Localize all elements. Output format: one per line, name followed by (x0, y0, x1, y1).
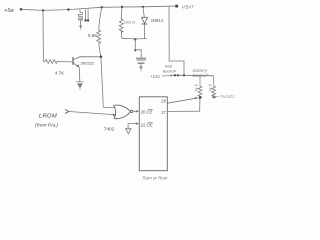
resistor 5.6K vertical (97, 7, 102, 43)
svg-text:+12v: +12v (150, 74, 161, 79)
transistor Q1 2N2222 (73, 57, 101, 68)
svg-text:( from PAL): ( from PAL) (35, 122, 59, 128)
junction collector node (100, 56, 103, 59)
label +12V with arrow (150, 74, 174, 79)
svg-text:V BAT: V BAT (182, 4, 195, 9)
label 4.7K (base resistor) (55, 71, 64, 76)
pin label 20 CE (141, 110, 153, 115)
pin label 27 (161, 110, 166, 115)
svg-text:4.7K: 4.7K (208, 84, 212, 92)
node +5V label (4, 8, 14, 14)
junction on rail at x68 (67, 8, 69, 10)
ground triangle at OE (126, 129, 131, 134)
junction dot battery rail x178 (177, 74, 179, 76)
ground arrow below capacitor (139, 66, 143, 72)
resistor 4.7K pullup right (212, 76, 216, 98)
label PU/SEL with arrow (212, 94, 235, 99)
svg-text:4.7K: 4.7K (194, 84, 198, 92)
svg-text:LROM: LROM (39, 114, 57, 120)
wire bottom of R10/diode (122, 37, 147, 40)
label 7402 (104, 127, 115, 133)
svg-text:1N914: 1N914 (151, 18, 164, 23)
label (from PAL) (35, 122, 59, 128)
capacitor plates pair (two stubs with dots, x85.6/x88.1) (84, 9, 89, 21)
node +5V terminal dot (20, 8, 23, 11)
wire jog down to capacitor C1 (134, 39, 141, 57)
junction at cap drop (134, 38, 136, 40)
ground arrow below emitter (76, 82, 84, 91)
wire pin28 to left pullup (167, 97, 198, 103)
svg-text:BackuP: BackuP (163, 68, 177, 73)
connector chevron LROM (65, 110, 69, 114)
junction dot right pullup bottom (212, 96, 215, 99)
diode 1N914 (142, 7, 148, 39)
resistor 10 ohm vertical (119, 7, 123, 38)
resistor small vertical at top (x80) (79, 10, 83, 26)
pin label 28 (161, 99, 166, 104)
svg-text:20 CE: 20 CE (141, 110, 153, 115)
svg-text:27: 27 (161, 110, 166, 115)
svg-text:22 OE: 22 OE (141, 123, 153, 128)
label Ram or Rom (143, 175, 168, 180)
wire OE pin from ground (128, 122, 139, 128)
svg-text:Pu/SEL: Pu/SEL (220, 94, 235, 99)
wire emitter down (78, 67, 81, 81)
resistor 4.7K pullup left (198, 76, 202, 98)
svg-text:5.6K: 5.6K (88, 33, 98, 38)
junction dot battery rail x184 (183, 74, 185, 76)
wire LROM to gate input (69, 112, 116, 117)
label 5.6K (88, 33, 98, 38)
svg-text:7402: 7402 (104, 127, 115, 133)
resistor 4.7K base (43, 60, 73, 64)
node VBAT label (182, 4, 195, 9)
svg-text:4.7K: 4.7K (55, 71, 64, 76)
wire from rail down to battery backup rail (169, 6, 184, 75)
svg-text:10Ω-Ω: 10Ω-Ω (124, 19, 136, 24)
label 10 ohm (124, 19, 136, 24)
wire gate output to CE pin (133, 110, 139, 113)
node VBAT terminal square (175, 5, 178, 8)
label 2N2222 (81, 60, 95, 65)
junction on rail at x122 (121, 6, 123, 8)
pin label 22 OE (141, 123, 153, 128)
svg-text:2N2222: 2N2222 (81, 60, 95, 65)
svg-text:Ram or Rom: Ram or Rom (143, 175, 168, 180)
label LROM (39, 114, 57, 120)
label 4.7K rotated (right pullup) (208, 84, 212, 92)
label Batt Backup (163, 64, 177, 74)
wire from rail down to base resistor (42, 10, 44, 61)
wire top +5V rail (21, 6, 176, 10)
wire pin27 jog up to pullup node (167, 98, 200, 111)
label 4.7K rotated (left pullup) (194, 84, 198, 92)
ground arrow below top resistor (79, 26, 82, 31)
junction on rail at x143 (142, 6, 144, 8)
label 1N914 (151, 18, 164, 23)
wire 5.6K bottom down to collector node (99, 43, 101, 56)
wire battery backup rail (175, 74, 214, 77)
junction dot left pullup bottom (199, 96, 202, 99)
IC U3 RAM/ROM box (139, 97, 167, 171)
junction dot at +12V arrow (174, 74, 176, 76)
gate U2 7402 NOR (114, 105, 133, 119)
junction on rail at x101.7 (101, 6, 103, 8)
svg-text:28: 28 (161, 99, 166, 104)
junction on rail at x43 (42, 9, 44, 11)
label Battery Backup (193, 68, 210, 78)
wire collector rail down to gate (101, 57, 115, 108)
svg-text:+5ø: +5ø (4, 8, 14, 14)
capacitor C1 (136, 58, 146, 66)
